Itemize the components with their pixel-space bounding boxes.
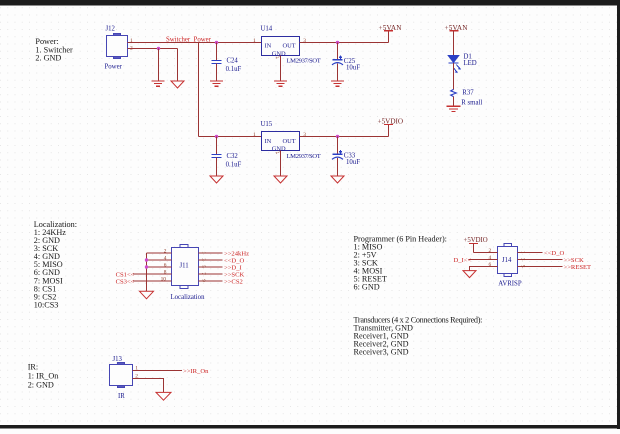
regulator U14: [262, 37, 300, 56]
svg-text:>>IR_On: >>IR_On: [183, 368, 209, 375]
wire CS3 to J11 pin10: [133, 280, 172, 282]
svg-text:J11: J11: [180, 262, 189, 269]
junction at C25 tap: [336, 41, 339, 44]
svg-text:1: 1: [130, 38, 133, 44]
svg-text:<<D_O: <<D_O: [224, 258, 244, 265]
wire C33 top lead: [337, 137, 339, 155]
svg-text:+5VDIO: +5VDIO: [378, 117, 404, 125]
wire J12 pin2 to grounds: [128, 48, 178, 50]
svg-text:CS1<<: CS1<<: [116, 272, 135, 279]
wire CS1 to J11 pin8: [133, 273, 172, 275]
note Power pinout: [35, 37, 73, 63]
svg-text:AVRISP: AVRISP: [498, 280, 522, 287]
wire J11 pin9 to CS2 port: [199, 280, 223, 282]
svg-text:D_I<<: D_I<<: [454, 257, 472, 264]
svg-text:Localization: Localization: [171, 294, 206, 301]
svg-text:>>RESET: >>RESET: [564, 264, 592, 271]
svg-text:1: IR_On: 1: IR_On: [28, 372, 59, 381]
svg-text:0.1uF: 0.1uF: [226, 66, 242, 73]
svg-text:>>24kHz: >>24kHz: [224, 251, 249, 258]
wire J14 pin6 to ground: [470, 267, 498, 271]
power symbol +5VDIO (J14): [469, 243, 478, 245]
svg-text:10: 10: [161, 277, 167, 283]
svg-text:10uF: 10uF: [346, 65, 360, 72]
wire +5VAN to D1 anode: [453, 31, 455, 56]
wire Switcher_Power: J12 pin1 to U14 IN: [128, 42, 262, 44]
wire J11 pin3 to D_O port: [199, 259, 223, 261]
wire C24 bottom lead: [216, 64, 218, 81]
svg-text:<<D_O: <<D_O: [544, 250, 564, 257]
svg-text:IR: IR: [118, 393, 125, 400]
wire D_I to J14 pin4: [469, 259, 498, 261]
junction bus/pin6: [145, 265, 148, 268]
wire U14 GND stem: [280, 56, 282, 81]
capacitor C24: [212, 61, 222, 64]
ground (triangle) for J11 bus: [140, 291, 154, 299]
wire J14 pin1 to D_O port: [518, 252, 543, 254]
wire J11 pin1 to 24kHz port: [199, 252, 223, 254]
capacitor C25 (polarized): [332, 56, 343, 65]
connector J11: [172, 245, 199, 289]
svg-text:J13: J13: [113, 356, 123, 363]
note Localization pinout: [34, 220, 77, 309]
connector J12: [107, 34, 128, 59]
connector J14: [498, 244, 518, 277]
svg-text:R small: R small: [461, 99, 482, 106]
svg-text:U14: U14: [261, 25, 273, 32]
svg-text:J12: J12: [106, 25, 116, 32]
svg-text:Switcher_Power: Switcher_Power: [166, 36, 212, 43]
ground (earth) under J12 pin2: [152, 81, 165, 86]
junction at C24 tap: [215, 41, 218, 44]
svg-text:IN: IN: [265, 43, 272, 50]
svg-text:7: 7: [200, 272, 206, 275]
svg-text:>>SCK: >>SCK: [224, 272, 245, 279]
svg-text:3: 3: [303, 38, 306, 44]
capacitor C32: [212, 155, 222, 158]
svg-text:2: GND: 2: GND: [28, 380, 54, 389]
note IR pinout: [28, 363, 59, 390]
wire GND bus vertical: [146, 253, 148, 291]
wire J11 pin2 to GND bus: [146, 252, 171, 254]
svg-text:8: 8: [164, 270, 167, 276]
power symbol +5VAN (LED branch): [450, 30, 459, 32]
svg-text:LED: LED: [464, 60, 477, 67]
wire J11 pin5 to D_I port: [199, 266, 223, 268]
svg-text:9: 9: [200, 279, 206, 282]
ground (triangle) under U15: [274, 176, 287, 183]
wire J14 pin3 to SCK port: [518, 259, 563, 261]
svg-text:OUT: OUT: [283, 138, 296, 145]
wire C32 bottom lead: [216, 158, 218, 177]
wire riser to +5VAN bar: [388, 31, 390, 43]
wire +5VDIO to J14 pin2: [474, 252, 498, 254]
wire down to earth ground: [158, 49, 160, 81]
ground (earth) under C25: [331, 81, 344, 86]
svg-text:+5VAN: +5VAN: [379, 24, 403, 32]
resistor R37: [451, 89, 457, 96]
wire vertical feed to U15 row: [198, 43, 200, 137]
power symbol +5VDIO (rail): [384, 124, 393, 126]
wire R37 to ground: [453, 97, 455, 107]
svg-text:5: 5: [519, 265, 525, 268]
svg-text:>>CS2: >>CS2: [224, 279, 243, 286]
wire C25 bottom lead: [337, 63, 339, 81]
wire C32 top lead: [216, 137, 218, 155]
wire C33 bottom lead: [337, 158, 339, 176]
svg-text:2: 2: [164, 248, 167, 254]
wire J13 pin1 to IR_On port: [133, 370, 183, 372]
junction bus/pin4: [145, 258, 148, 261]
svg-text:U15: U15: [261, 121, 273, 128]
svg-text:C24: C24: [227, 58, 239, 65]
ground (earth) under U14: [274, 81, 287, 86]
regulator U15: [262, 132, 300, 151]
svg-text:>>SCK: >>SCK: [564, 257, 585, 264]
svg-text:IR:: IR:: [28, 363, 38, 372]
wire J11 pin7 to SCK port: [199, 273, 223, 275]
ground (earth) under R37: [446, 106, 460, 111]
ground (triangle) for J14 pin6: [463, 271, 476, 278]
svg-text:OUT: OUT: [283, 43, 296, 50]
wire D1 cathode to R37: [453, 63, 455, 89]
LED D1: [448, 56, 461, 73]
note Programmer pinout: [354, 235, 447, 292]
svg-text:0.1uF: 0.1uF: [226, 161, 242, 168]
svg-text:1: 1: [200, 251, 206, 254]
note Transducers: [354, 315, 483, 356]
svg-text:10uF: 10uF: [346, 159, 360, 166]
svg-text:R37: R37: [462, 89, 474, 96]
ground (earth) under C24: [210, 81, 223, 86]
svg-text:10:CS3: 10:CS3: [34, 300, 59, 309]
svg-text:>>D_I: >>D_I: [224, 265, 242, 272]
svg-text:3: 3: [200, 258, 206, 261]
wire U15 OUT to +5VDIO: [300, 136, 389, 138]
wire +5VDIO riser: [473, 244, 475, 253]
wire U15 GND stem: [280, 151, 282, 177]
ground (triangle) for J13 pin2: [156, 392, 171, 400]
svg-text:4: 4: [164, 256, 167, 262]
svg-text:3: 3: [519, 258, 525, 261]
junction on pin2 wire: [157, 47, 160, 50]
svg-text:2: 2: [489, 248, 492, 254]
wire J11 pin4 to GND bus: [146, 259, 171, 261]
svg-text:1: 1: [253, 132, 256, 138]
svg-text:C32: C32: [227, 153, 239, 160]
svg-text:CS3<<: CS3<<: [116, 279, 135, 286]
svg-text:4: 4: [489, 255, 492, 261]
svg-text:6: GND: 6: GND: [354, 283, 380, 292]
wire U15 IN feed: [199, 136, 262, 138]
svg-text:6: 6: [489, 262, 492, 268]
junction at C32 tap: [215, 135, 218, 138]
junction at C33 tap: [336, 135, 339, 138]
svg-text:J14: J14: [502, 257, 512, 264]
svg-text:LM2937/SOT: LM2937/SOT: [287, 58, 321, 65]
power symbol +5VAN (rail): [384, 30, 393, 32]
ground (triangle) under J12 pin2: [171, 81, 184, 88]
connector J13: [110, 363, 133, 388]
wire C25 top lead: [337, 43, 339, 60]
wire C24 top lead: [216, 43, 218, 61]
wire riser to +5VDIO bar: [388, 124, 390, 136]
wire down to triangle ground: [177, 49, 179, 82]
capacitor C33 (polarized): [332, 150, 343, 159]
wire J14 pin5 to RESET port: [518, 266, 563, 268]
svg-text:Receiver3, GND: Receiver3, GND: [354, 347, 409, 356]
svg-text:IN: IN: [265, 138, 272, 145]
ground (triangle) under C32: [210, 176, 223, 183]
wire J13 pin2 to ground: [133, 379, 164, 393]
svg-text:5: 5: [200, 265, 206, 268]
svg-text:2. GND: 2. GND: [35, 54, 61, 63]
svg-text:LM2937/SOT: LM2937/SOT: [287, 153, 321, 160]
svg-text:1: 1: [519, 251, 525, 254]
svg-text:Power: Power: [105, 63, 123, 70]
wire J11 pin6 to GND bus: [147, 266, 172, 268]
wire U14 OUT to +5VAN: [300, 42, 389, 44]
svg-text:1: 1: [253, 38, 256, 44]
ground (triangle) under C33: [331, 176, 344, 183]
svg-text:6: 6: [164, 263, 167, 269]
